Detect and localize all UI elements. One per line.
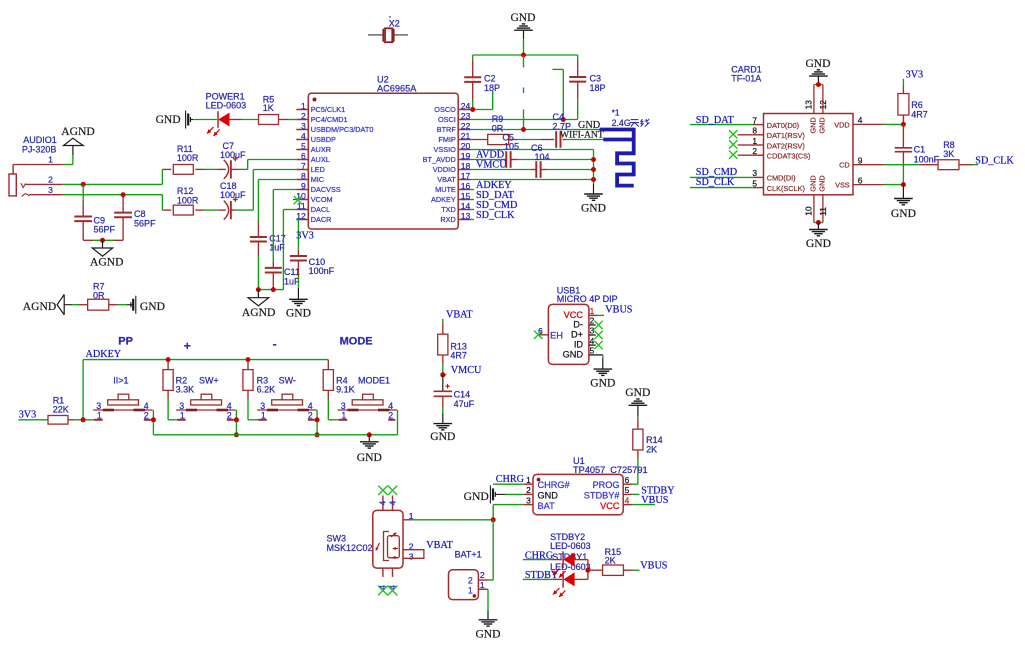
svg-text:22: 22 — [461, 121, 471, 131]
svg-text:3: 3 — [48, 185, 53, 195]
svg-text:PJ-320B: PJ-320B — [22, 144, 57, 154]
svg-text:MUTE: MUTE — [435, 185, 456, 194]
svg-text:GND: GND — [805, 57, 830, 70]
svg-text:VCC: VCC — [600, 501, 620, 511]
net label SD_CMD pin14 — [470, 209, 474, 211]
junction GND/rail — [367, 432, 372, 437]
ground GND port at R7 — [117, 304, 127, 306]
svg-text:3: 3 — [409, 551, 414, 561]
svg-text:CMD(DI): CMD(DI) — [767, 174, 796, 183]
svg-text:4R7: 4R7 — [450, 351, 467, 361]
svg-text:15: 15 — [461, 191, 471, 201]
op-amp U2 AC6965A main chip — [308, 93, 458, 229]
resistor R14 — [637, 418, 639, 430]
svg-text:VCOM: VCOM — [311, 195, 333, 204]
svg-text:3K: 3K — [943, 149, 954, 159]
svg-text:22K: 22K — [53, 404, 69, 414]
wire AGND rail bottom — [258, 289, 283, 291]
svg-text:3: 3 — [590, 326, 595, 336]
svg-text:4: 4 — [378, 500, 388, 505]
svg-text:3: 3 — [526, 495, 531, 505]
wire b2pin2 riser — [235, 410, 237, 435]
svg-text:OSCI: OSCI — [438, 115, 456, 124]
svg-text:1: 1 — [301, 101, 306, 111]
ground GND below buttons — [368, 435, 370, 442]
ground GND below antenna — [593, 184, 595, 194]
svg-text:9: 9 — [858, 155, 863, 165]
svg-text:MODE: MODE — [340, 335, 373, 347]
svg-text:BAT: BAT — [538, 501, 556, 511]
svg-text:DACR: DACR — [311, 215, 332, 224]
net label STDBY at U1 pin5 — [632, 493, 639, 495]
svg-text:2: 2 — [480, 570, 485, 580]
svg-text:VBAT: VBAT — [426, 540, 453, 551]
svg-text:SD_CLK: SD_CLK — [476, 210, 515, 221]
junction BTRF/GND drop — [521, 127, 526, 132]
svg-text:VBAT: VBAT — [446, 310, 473, 321]
analog ground AGND below C9 C8 — [102, 240, 104, 248]
svg-text:1uF: 1uF — [284, 276, 300, 286]
resistor R5 — [259, 115, 279, 125]
svg-text:2: 2 — [590, 316, 595, 326]
svg-text:8: 8 — [301, 171, 306, 181]
svg-text:GND: GND — [538, 490, 559, 500]
capacitor C5 — [470, 159, 501, 161]
capacitor C2 — [472, 55, 474, 60]
svg-text:OSCO: OSCO — [434, 105, 456, 114]
LED POWER1 LED-0603 — [193, 119, 217, 121]
junction VBAT/GND — [591, 177, 596, 182]
svg-text:ADKEY: ADKEY — [431, 195, 456, 204]
svg-text:DAT1(RSV): DAT1(RSV) — [767, 131, 805, 140]
svg-text:BT_AVDD: BT_AVDD — [423, 155, 456, 164]
capacitor C6 — [470, 169, 531, 171]
svg-text:3.3K: 3.3K — [176, 385, 195, 395]
svg-text:VMCU: VMCU — [451, 365, 482, 376]
capacitor C10 — [297, 250, 299, 256]
junction AGND rail — [100, 238, 105, 243]
svg-text:0R: 0R — [93, 291, 105, 301]
svg-text:1: 1 — [97, 410, 102, 420]
ground GND below C1 — [902, 185, 904, 199]
junction BAT node — [491, 517, 496, 522]
svg-text:2: 2 — [48, 175, 53, 185]
junction VMCU — [440, 372, 445, 377]
svg-text:SW+: SW+ — [199, 375, 219, 385]
junction rail/GND — [521, 53, 526, 58]
svg-text:PC4/CMD1: PC4/CMD1 — [311, 115, 348, 124]
svg-text:C1: C1 — [914, 144, 926, 154]
svg-text:11: 11 — [297, 201, 306, 211]
switch SW- button — [257, 409, 317, 411]
resistor R2 — [167, 360, 169, 370]
svg-text:2: 2 — [468, 576, 473, 586]
wire VDD pin4 — [853, 123, 883, 125]
svg-text:GND: GND — [806, 237, 831, 250]
svg-text:100nF: 100nF — [309, 266, 335, 276]
junction R6/VDD — [901, 122, 906, 127]
svg-text:23: 23 — [461, 111, 471, 121]
svg-text:ID: ID — [574, 340, 584, 350]
svg-text:LED-0603: LED-0603 — [550, 541, 591, 551]
svg-text:18: 18 — [461, 161, 471, 171]
wire VSSIO pin20 — [470, 149, 594, 151]
svg-text:6: 6 — [301, 151, 306, 161]
resistor R6 — [902, 79, 904, 86]
svg-text:19: 19 — [461, 151, 471, 161]
svg-text:TXD: TXD — [441, 205, 456, 214]
resistor R12 — [162, 209, 171, 211]
svg-text:6: 6 — [625, 475, 630, 485]
svg-text:VMCU: VMCU — [476, 159, 507, 170]
svg-text:CDDAT3(CS): CDDAT3(CS) — [767, 152, 811, 161]
svg-text:STDBY#: STDBY# — [584, 490, 621, 500]
resistor R3 — [247, 360, 249, 370]
svg-text:X2: X2 — [389, 18, 400, 28]
svg-text:3V3: 3V3 — [296, 230, 314, 241]
junction b3 pin2 rail — [315, 432, 320, 437]
svg-text:MODE1: MODE1 — [358, 375, 390, 385]
wire SW3 pin1 to junction — [412, 519, 494, 521]
svg-text:1K: 1K — [263, 103, 274, 113]
svg-text:2: 2 — [526, 485, 531, 495]
svg-text:SW-: SW- — [279, 375, 296, 385]
svg-text:CHRG#: CHRG# — [538, 480, 571, 490]
wire BAT node to battery — [492, 520, 494, 580]
svg-text:5: 5 — [301, 141, 306, 151]
resistor R11 — [162, 168, 171, 170]
svg-text:RXD: RXD — [440, 215, 455, 224]
svg-text:2: 2 — [301, 111, 306, 121]
capacitor C3 — [577, 55, 579, 60]
switch MODE1 button — [338, 409, 398, 411]
svg-text:LED: LED — [311, 165, 325, 174]
capacitor C11 — [272, 262, 274, 268]
svg-text:16: 16 — [461, 181, 471, 191]
svg-text:DAT0(D0): DAT0(D0) — [767, 121, 799, 130]
svg-text:100uF: 100uF — [220, 190, 246, 200]
svg-text:VCC: VCC — [564, 310, 584, 320]
svg-text:GND: GND — [891, 207, 916, 220]
antenna ANT1 2.4G — [600, 128, 634, 132]
svg-text:6: 6 — [858, 175, 863, 185]
svg-text:FMIP: FMIP — [438, 135, 456, 144]
svg-text:CHRG: CHRG — [496, 474, 525, 485]
svg-text:VSS: VSS — [835, 181, 850, 190]
wire b3pin2 riser — [316, 410, 318, 435]
wire R14 to PROG pin6 — [632, 483, 638, 485]
svg-text:EH: EH — [550, 330, 563, 340]
svg-text:4: 4 — [590, 336, 595, 346]
svg-text:13: 13 — [461, 211, 471, 221]
svg-text:DAT2(RSV): DAT2(RSV) — [767, 141, 805, 150]
svg-text:7: 7 — [752, 115, 757, 125]
junction LEDs/R15 — [585, 568, 590, 573]
svg-text:1: 1 — [526, 475, 531, 485]
resistor R4 — [327, 360, 329, 370]
svg-text:II>1: II>1 — [113, 375, 128, 385]
svg-text:GND: GND — [563, 349, 584, 359]
svg-text:ADKEY: ADKEY — [86, 349, 122, 360]
svg-text:1: 1 — [752, 136, 757, 146]
svg-text:LED-0603: LED-0603 — [206, 101, 247, 111]
resistor R13 — [442, 319, 444, 323]
wire jack pin2 to R11 — [63, 183, 163, 185]
svg-text:100uF: 100uF — [220, 150, 246, 160]
svg-text:2.4G: 2.4G — [612, 118, 631, 128]
wire VBAT pin17 — [470, 179, 594, 181]
svg-text:VDDIO: VDDIO — [433, 165, 456, 174]
junction C11/AGND — [271, 287, 276, 292]
svg-text:5: 5 — [625, 485, 630, 495]
net label SD_DAT pin15 — [470, 199, 474, 201]
svg-text:1: 1 — [48, 155, 53, 165]
svg-text:4: 4 — [387, 585, 397, 590]
svg-text:*1: *1 — [612, 107, 620, 117]
wire buttons bottom rail — [153, 434, 397, 436]
ground GND below battery — [487, 611, 489, 620]
svg-text:9: 9 — [301, 181, 306, 191]
svg-text:PC5/CLK1: PC5/CLK1 — [311, 105, 345, 114]
wire DACVSS pin9 to C11 — [273, 189, 296, 191]
svg-text:100nF: 100nF — [914, 154, 940, 164]
svg-text:56PF: 56PF — [94, 225, 116, 235]
capacitor C9 — [82, 184, 84, 200]
svg-text:WIFI-ANT: WIFI-ANT — [560, 130, 604, 141]
junction C17/AGND — [256, 287, 261, 292]
capacitor C18 — [204, 209, 219, 211]
svg-text:4: 4 — [858, 115, 863, 125]
svg-text:9.1K: 9.1K — [336, 385, 355, 395]
svg-text:AUXR: AUXR — [311, 145, 331, 154]
wire CD pin9 to R8 — [853, 164, 883, 166]
svg-text:GND: GND — [430, 430, 455, 443]
wire DACR pin12 to C10 — [296, 219, 298, 221]
junction b2 pin2 rail — [234, 432, 239, 437]
svg-text:104: 104 — [535, 152, 550, 162]
svg-text:GND: GND — [357, 451, 382, 464]
svg-text:18P: 18P — [590, 83, 606, 93]
svg-text:DACL: DACL — [311, 205, 330, 214]
resistor R7 — [79, 304, 88, 306]
resistor R9 — [470, 139, 488, 141]
svg-text:17: 17 — [461, 171, 471, 181]
switch SW+ button — [176, 409, 236, 411]
junction OSCI stub — [561, 117, 566, 122]
svg-text:GND: GND — [818, 175, 827, 191]
wire C18 to LED pin7 — [252, 170, 254, 211]
junction b3 pin2 top — [315, 417, 320, 422]
svg-text:VBUS: VBUS — [605, 304, 633, 315]
svg-text:C2: C2 — [484, 74, 496, 84]
junction VSS/GND — [901, 182, 906, 187]
junction R2/rail — [166, 357, 171, 362]
wire MIC pin8 to C17 — [258, 179, 296, 181]
svg-text:4: 4 — [625, 495, 630, 505]
svg-text:8: 8 — [752, 126, 757, 136]
LED STDBY1 — [523, 578, 552, 580]
svg-text:11: 11 — [818, 207, 828, 216]
svg-text:BAT+1: BAT+1 — [455, 550, 482, 560]
svg-text:DACVSS: DACVSS — [311, 185, 341, 194]
svg-text:5: 5 — [590, 346, 595, 356]
svg-text:GND: GND — [818, 117, 827, 133]
svg-text:2: 2 — [227, 410, 232, 420]
svg-text:2: 2 — [752, 146, 757, 156]
junction R3/rail — [246, 357, 251, 362]
svg-text:MICRO 4P DIP: MICRO 4P DIP — [557, 294, 618, 304]
svg-text:D-: D- — [573, 320, 583, 330]
svg-text:GND: GND — [156, 113, 181, 126]
svg-text:7: 7 — [301, 161, 306, 171]
svg-text:3: 3 — [301, 121, 306, 131]
svg-text:CD: CD — [839, 161, 850, 170]
wire BAT pin3 to SW3/battery — [493, 504, 524, 506]
svg-text:3V3: 3V3 — [906, 70, 924, 81]
svg-text:12: 12 — [818, 100, 828, 110]
svg-text:SD_CLK: SD_CLK — [696, 177, 735, 188]
svg-text:4: 4 — [378, 585, 388, 590]
svg-text:GND: GND — [140, 300, 165, 313]
wire OSCO pin24 — [470, 109, 493, 111]
wire GND rail — [473, 54, 578, 56]
svg-text:-: - — [273, 337, 277, 351]
svg-text:2K: 2K — [605, 556, 616, 566]
svg-text:D+: D+ — [571, 330, 583, 340]
wire VSS pin6 — [853, 184, 883, 186]
net label SD_CMD at card — [690, 176, 753, 178]
wire b1pin2 riser — [152, 410, 154, 435]
wire C7 to AUXL pin6 — [247, 160, 249, 170]
svg-text:1: 1 — [261, 410, 266, 420]
capacitor C8 — [122, 195, 124, 213]
svg-text:100R: 100R — [177, 153, 199, 163]
svg-text:2: 2 — [144, 410, 149, 420]
svg-text:4: 4 — [301, 131, 306, 141]
junction b2 pin2 top — [234, 417, 239, 422]
svg-text:USBDM/PC3/DAT0: USBDM/PC3/DAT0 — [311, 125, 374, 134]
junction R1/rail — [81, 417, 86, 422]
svg-text:AUXL: AUXL — [311, 155, 330, 164]
crystal X2 — [368, 34, 383, 36]
svg-text:1: 1 — [590, 306, 595, 316]
svg-text:GND: GND — [590, 377, 615, 390]
capacitor C1 — [902, 124, 904, 147]
wire BTRF/GND to antenna — [470, 129, 601, 131]
svg-text:100R: 100R — [177, 195, 199, 205]
svg-text:C3: C3 — [590, 74, 602, 84]
svg-text:3: 3 — [752, 168, 757, 178]
ground GND below C10 — [297, 288, 299, 299]
svg-text:47uF: 47uF — [454, 399, 475, 409]
svg-text:VBAT: VBAT — [437, 175, 456, 184]
junction b1 pin2 — [151, 417, 156, 422]
svg-text:3V3: 3V3 — [19, 409, 37, 420]
svg-text:TF-01A: TF-01A — [731, 74, 761, 84]
svg-text:105: 105 — [504, 142, 519, 152]
card pins 10 11 to GND — [813, 195, 815, 223]
svg-text:AC6965A: AC6965A — [377, 84, 417, 94]
svg-text:AGND: AGND — [242, 306, 276, 319]
svg-text:10: 10 — [803, 206, 813, 216]
svg-text:MIC: MIC — [311, 175, 324, 184]
svg-text:2K: 2K — [646, 444, 657, 454]
card pins 13 12 to GND — [814, 84, 823, 86]
resistor R8 — [920, 164, 938, 166]
svg-text:+: + — [184, 339, 191, 353]
net label VBUS at U1 pin4 — [632, 504, 655, 506]
svg-text:GND: GND — [581, 202, 606, 215]
wire GND drop to BTRF row — [523, 55, 525, 68]
capacitor C14 — [442, 375, 444, 392]
resistor R15 — [588, 569, 603, 571]
svg-text:GND: GND — [475, 628, 500, 641]
switch SW PP (II>1) — [93, 409, 153, 411]
svg-text:GND: GND — [809, 117, 818, 133]
svg-text:AGND: AGND — [90, 255, 124, 268]
wire OSCI pin23 — [470, 119, 578, 121]
svg-text:2: 2 — [388, 410, 393, 420]
svg-text:VSSIO: VSSIO — [433, 145, 456, 154]
junction VMCU/GND — [591, 167, 596, 172]
svg-text:4: 4 — [387, 500, 397, 505]
net label ADKEY pin16 — [470, 189, 474, 191]
net label SD_DAT at card — [690, 124, 753, 126]
svg-text:VBUS: VBUS — [640, 561, 668, 572]
ground GND below C14 — [442, 413, 444, 424]
net label SD_CLK pin13 — [470, 219, 474, 221]
svg-text:4R7: 4R7 — [911, 109, 928, 119]
capacitor C7 — [204, 168, 219, 170]
svg-text:GND: GND — [809, 175, 818, 191]
svg-text:GND: GND — [286, 306, 311, 319]
svg-text:PROG: PROG — [592, 480, 619, 490]
wire C9/C8 to AGND — [83, 239, 93, 241]
svg-text:GND: GND — [464, 490, 489, 503]
wire jack pin3 to R12 — [63, 194, 163, 196]
wire ADKEY rail — [83, 359, 328, 361]
svg-text:USBDP: USBDP — [311, 135, 336, 144]
svg-text:AGND: AGND — [61, 125, 95, 138]
svg-text:14: 14 — [461, 201, 471, 211]
svg-text:SD_CLK: SD_CLK — [975, 155, 1014, 166]
svg-text:1: 1 — [480, 580, 485, 590]
svg-text:MSK12C02: MSK12C02 — [327, 543, 373, 553]
svg-text:BTRF: BTRF — [437, 125, 457, 134]
svg-text:6.2K: 6.2K — [257, 385, 276, 395]
wire LED join — [587, 560, 589, 580]
junction pin2/C9 — [81, 182, 86, 187]
junction pin3/C8 — [121, 192, 126, 197]
capacitor C17 — [257, 222, 259, 238]
svg-text:1: 1 — [341, 410, 346, 420]
svg-text:5: 5 — [752, 178, 757, 188]
svg-text:CLK(SCLK): CLK(SCLK) — [767, 184, 805, 193]
svg-text:1: 1 — [468, 585, 473, 595]
svg-text:AGND: AGND — [23, 300, 57, 313]
svg-text:VDD: VDD — [834, 121, 849, 130]
ground GND card bottom — [817, 223, 819, 230]
no-connect VCOM pin10 — [293, 199, 296, 201]
wire DACL pin11 to AGND rail — [283, 209, 296, 211]
svg-text:56PF: 56PF — [134, 219, 156, 229]
svg-text:20: 20 — [461, 141, 471, 151]
svg-text:1: 1 — [180, 410, 185, 420]
svg-text:24: 24 — [461, 101, 471, 111]
svg-text:2: 2 — [308, 410, 313, 420]
svg-text:SW3: SW3 — [327, 534, 347, 544]
resistor R1 — [19, 419, 49, 421]
